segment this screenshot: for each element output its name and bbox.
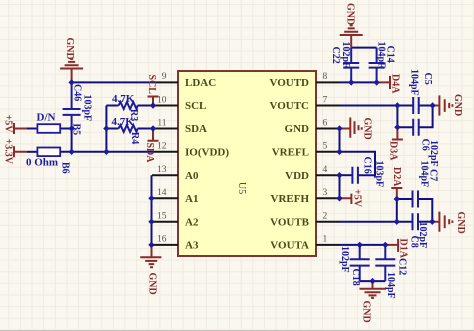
pin 10 (SCL): [155, 95, 207, 112]
svg-text:D4A: D4A: [390, 74, 401, 94]
pin 15 (A2): [152, 212, 199, 229]
wire B5 to junction: [60, 128, 71, 130]
svg-text:VOUTD: VOUTD: [269, 77, 309, 89]
wire pullup rail vertical: [105, 106, 107, 152]
pin 7 (VOUTC): [269, 95, 339, 112]
svg-text:C46: C46: [72, 84, 83, 101]
wire VOUTC branch down left: [396, 106, 398, 128]
wire C6 lower branch right and up: [419, 106, 433, 128]
svg-text:+5V: +5V: [3, 115, 14, 134]
junction A3 bus/GND: [148, 242, 154, 248]
svg-text:104pF: 104pF: [385, 272, 396, 299]
port D2A (VOUTB net): [391, 167, 402, 199]
wire VREFL extension to C16: [340, 152, 376, 175]
wire A0-A3 bus vertical: [151, 175, 153, 245]
svg-text:9: 9: [162, 72, 167, 82]
pin 6 (GND): [285, 118, 340, 135]
svg-text:VREFH: VREFH: [271, 193, 310, 205]
svg-text:C12: C12: [397, 258, 408, 275]
wire VDD down to VREFH: [339, 175, 341, 198]
junction C14/VOUTD: [373, 79, 379, 85]
svg-text:VOUTC: VOUTC: [269, 100, 309, 112]
svg-text:A3: A3: [185, 240, 199, 252]
svg-text:102pF: 102pF: [339, 246, 350, 273]
wire VOUTC to C5 left plate: [340, 105, 414, 107]
svg-text:11: 11: [157, 118, 166, 128]
svg-text:SCL: SCL: [146, 75, 157, 95]
wire VOUTD to D4A node: [340, 81, 377, 83]
pin 1 (VOUTA): [270, 235, 339, 252]
capacitor C5 104pF: [409, 69, 434, 114]
wire C8 right plate to GND stem: [418, 221, 432, 223]
resistor R4 4.7K: [112, 116, 141, 144]
svg-text:GND: GND: [455, 212, 466, 234]
junction VOUTB/GND right: [429, 219, 435, 225]
junction pin3/+5V: [336, 195, 342, 201]
svg-text:GND: GND: [452, 94, 463, 116]
svg-text:15: 15: [157, 212, 167, 222]
ground GND right of pin 6: [340, 118, 373, 140]
svg-text:GND: GND: [361, 301, 372, 323]
port D4A (VOUTD net): [377, 74, 401, 94]
junction D3A/C6 branch: [394, 124, 400, 130]
svg-text:LDAC: LDAC: [185, 77, 216, 89]
svg-text:0 Ohm: 0 Ohm: [26, 157, 58, 169]
pin 3 (VREFH): [271, 188, 340, 205]
svg-text:13: 13: [157, 165, 167, 175]
resistor B5 D/N: [37, 112, 82, 136]
wire C18 C12 bottom bracket: [360, 280, 386, 282]
pin 16 (A3): [152, 235, 199, 252]
svg-text:103pF: 103pF: [374, 161, 385, 188]
junction pin5/VREFL: [336, 149, 342, 155]
resistor B6 0 Ohm: [26, 148, 71, 174]
junction D2A/C7 branch: [394, 196, 400, 202]
capacitor C8 102pF: [409, 213, 429, 248]
junction C18/VOUTA: [357, 242, 363, 248]
pin 11 (SDA): [155, 118, 208, 135]
svg-text:+5V: +5V: [352, 189, 363, 208]
junction rail/R4: [103, 125, 109, 131]
svg-text:A1: A1: [185, 193, 198, 205]
svg-text:C5: C5: [422, 73, 433, 85]
wire C7 upper branch left: [397, 198, 413, 200]
pin 5 (VREFL): [272, 142, 340, 159]
svg-text:C18: C18: [350, 269, 361, 286]
svg-text:7: 7: [323, 95, 328, 105]
ground GND bottom-left (A0-A3 net): [140, 245, 161, 295]
resistor R3 4.7K: [112, 93, 139, 121]
wire VDD to C16 left plate: [340, 174, 353, 176]
wire B6 line to pin 12: [60, 151, 154, 153]
svg-text:16: 16: [157, 235, 167, 245]
svg-text:SDA: SDA: [185, 123, 207, 135]
pin 9 (LDAC): [155, 72, 217, 89]
svg-text:C14: C14: [385, 46, 396, 63]
svg-text:103pF: 103pF: [82, 95, 93, 122]
svg-text:GND: GND: [285, 123, 310, 135]
svg-text:104pF: 104pF: [409, 69, 420, 96]
junction VOUTC/GND right: [429, 102, 435, 108]
junction SDA port: [150, 125, 156, 131]
wire VOUTA to D1A node: [340, 244, 386, 246]
svg-text:VREFL: VREFL: [272, 146, 309, 158]
svg-text:B6: B6: [60, 162, 71, 174]
wire VOUTB branch up left: [396, 199, 398, 222]
svg-text:SDA: SDA: [144, 143, 155, 164]
svg-text:A2: A2: [185, 216, 199, 228]
junction A1 bus: [148, 195, 154, 201]
junction SCL port: [150, 102, 156, 108]
port SCL (pin 10 net): [146, 75, 159, 106]
svg-text:4: 4: [323, 165, 328, 175]
svg-text:2: 2: [323, 212, 328, 222]
wire LDAC/GND net horizontal: [72, 81, 155, 83]
svg-text:104pF: 104pF: [419, 161, 430, 188]
svg-text:102pF: 102pF: [417, 222, 428, 249]
svg-text:D2A: D2A: [391, 167, 402, 187]
svg-text:IO(VDD): IO(VDD): [185, 146, 229, 158]
svg-text:SCL: SCL: [185, 100, 206, 112]
wire C22 C14 top bracket: [351, 47, 376, 49]
svg-text:8: 8: [323, 72, 328, 82]
svg-text:3: 3: [323, 188, 328, 198]
capacitor C7 104pF: [413, 161, 439, 208]
svg-text:1: 1: [323, 235, 328, 245]
svg-text:GND: GND: [64, 38, 75, 60]
capacitor C18 102pF: [339, 245, 370, 286]
svg-text:C22: C22: [330, 47, 341, 64]
svg-text:4.7K: 4.7K: [112, 116, 135, 128]
wire C46 top to B5 junction vertical link: [71, 129, 73, 152]
svg-text:4.7K: 4.7K: [112, 93, 135, 105]
wire GND pin6 down to VREFL: [339, 129, 341, 152]
junction B5 link/B6 line: [68, 149, 74, 155]
ground GND bottom-right (below C18 C12): [360, 281, 386, 323]
junction C12/VOUTA: [382, 242, 388, 248]
junction LDAC/GND/C46: [68, 79, 74, 85]
IC U5: [178, 71, 316, 256]
svg-text:VDD: VDD: [285, 170, 309, 182]
junction B5/C46: [68, 125, 74, 131]
power port +5V left: [3, 115, 27, 135]
wire C6 lower branch left: [397, 126, 413, 128]
capacitor C12 104pF: [375, 245, 407, 299]
capacitor C14 104pF: [369, 42, 396, 83]
svg-text:VOUTA: VOUTA: [270, 240, 309, 252]
pin 14 (A1): [152, 188, 198, 205]
svg-text:102pF: 102pF: [340, 42, 351, 69]
capacitor C22 102pF: [330, 42, 359, 83]
junction pin6/GND: [336, 125, 342, 131]
ground GND top-right (above C22): [340, 3, 363, 48]
port D3A (VOUTC net): [388, 127, 403, 161]
wire +5V to B5: [27, 128, 38, 130]
pin 12 (IO(VDD)): [155, 142, 230, 159]
wire +3.3V to B6: [27, 151, 38, 153]
svg-text:D1A: D1A: [398, 239, 409, 259]
svg-text:D3A: D3A: [388, 141, 399, 161]
junction VOUTB branch left: [394, 219, 400, 225]
ground GND right of pin 2: [432, 212, 466, 234]
capacitor C6 102pF: [413, 119, 439, 167]
pin 13 (A0): [152, 165, 199, 182]
wire C7 upper branch right and down: [418, 199, 432, 222]
wire rail to R3 and R3 to SCL pin: [106, 105, 154, 107]
svg-text:12: 12: [157, 142, 167, 152]
svg-text:VOUTB: VOUTB: [270, 216, 310, 228]
pin 8 (VOUTD): [269, 72, 339, 89]
pin 4 (VDD): [285, 165, 339, 182]
svg-text:R4: R4: [129, 132, 140, 144]
power port +5V (VREFH/VDD net): [340, 189, 363, 208]
pin 2 (VOUTB): [270, 212, 339, 229]
svg-text:D/N: D/N: [37, 112, 56, 124]
capacitor C16 103pF: [352, 157, 384, 188]
port D1A (VOUTA net): [385, 239, 408, 259]
svg-text:A0: A0: [185, 170, 199, 182]
svg-text:C16: C16: [362, 157, 373, 174]
port SDA (pin 11 net): [144, 129, 159, 164]
wire C5 right plate to GND stem: [419, 105, 433, 107]
svg-text:14: 14: [157, 188, 167, 198]
svg-text:GND: GND: [362, 118, 373, 140]
svg-text:GND: GND: [345, 3, 356, 25]
junction pin4/VDD: [336, 172, 342, 178]
svg-text:+3.3V: +3.3V: [3, 139, 14, 165]
junction C22/VOUTD: [348, 79, 354, 85]
junction A2 bus: [148, 219, 154, 225]
svg-text:6: 6: [323, 118, 328, 128]
svg-text:GND: GND: [147, 273, 158, 295]
junction rail/B6 line: [103, 149, 109, 155]
wire VOUTB to C8 left plate: [340, 221, 413, 223]
junction bottom bracket/GND: [369, 278, 375, 284]
junction VOUTC branch left: [394, 102, 400, 108]
ground GND top-left (LDAC net): [60, 38, 83, 83]
ground GND right of pin 7: [433, 94, 463, 116]
svg-text:5: 5: [323, 142, 328, 152]
power port +3.3V left: [3, 139, 27, 165]
svg-text:U5: U5: [236, 182, 247, 194]
wire rail to R4 and R4 to SDA pin: [106, 128, 154, 130]
capacitor C46 103pF: [63, 82, 93, 128]
